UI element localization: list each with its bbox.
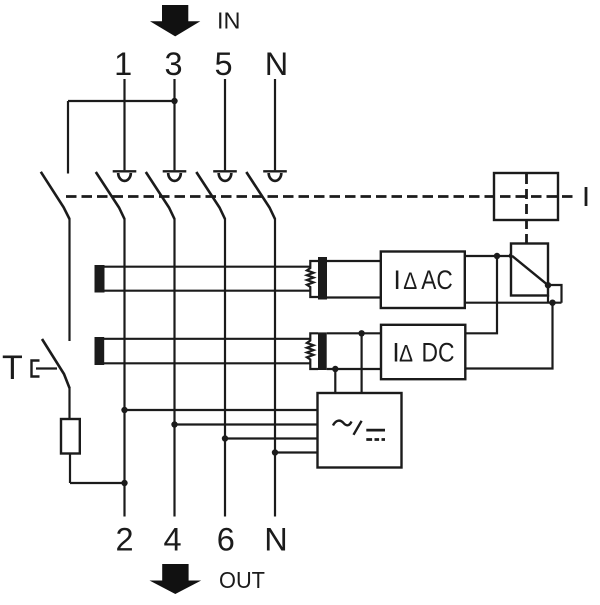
svg-text:T: T (2, 349, 23, 387)
contact terminal pole N (263, 171, 287, 181)
OUT arrow (150, 564, 202, 594)
wire CT2 to IdDC bottom (327, 368, 381, 370)
wire line 5 top (224, 79, 226, 170)
contact terminal pole 5 (213, 171, 237, 181)
svg-text:3: 3 (164, 46, 182, 82)
wire tap to electronics box (right) (361, 333, 363, 393)
CT core 1 (AC toroid) left cap (95, 265, 105, 293)
junction IdDC feedback bottom (549, 300, 555, 306)
IN arrow (150, 5, 200, 36)
contact terminal pole 3 (163, 171, 187, 181)
junction line 2 electronics (121, 407, 127, 413)
wire link pole to line 3 (68, 101, 175, 174)
CT core 2 secondary winding zigzag (307, 333, 318, 369)
wire line 4 to electronics (175, 423, 318, 425)
dashed linkage to relay (525, 174, 528, 243)
CT core 2 body lines (104, 339, 310, 364)
wire line 6 to electronics (225, 437, 318, 439)
electronics box (318, 393, 402, 468)
svg-text:IΔDC: IΔDC (392, 338, 454, 368)
junction on line 3 (171, 98, 177, 104)
test switch blade (42, 339, 70, 388)
switch blade pole 5 (196, 172, 225, 219)
symbol slash (354, 421, 362, 435)
junction IdDC feedback top (494, 253, 500, 259)
wire CT1 to IdAC top (327, 260, 381, 262)
junction line 6 electronics (222, 435, 228, 441)
CT core 1 winding block (318, 257, 327, 300)
svg-text:5: 5 (214, 46, 232, 82)
wire resistor to line 2 (70, 453, 125, 483)
wire line 6 (224, 219, 226, 517)
switch blade pole 3 (146, 172, 175, 219)
junction CT2 top tap (358, 330, 364, 336)
wire CT1 to IdAC bottom (327, 296, 381, 298)
svg-text:OUT: OUT (219, 567, 265, 593)
test button rod (36, 367, 57, 369)
junction line 4 electronics (171, 421, 177, 427)
wire line 3 top (173, 79, 175, 170)
CT core 2 (DC toroid) left cap (95, 337, 105, 365)
junction at relay input (509, 253, 515, 259)
wire IdDC bottom output (465, 303, 552, 369)
trip linkage dashed line (66, 195, 573, 198)
wire line N bottom (274, 219, 276, 517)
switch blade pole 1 (96, 172, 125, 219)
wire IdAC bottom to loop (465, 302, 562, 304)
contact terminal pole 1 (113, 171, 137, 181)
junction on line 2 (121, 480, 127, 486)
svg-text:N: N (264, 522, 287, 558)
wire line 1 top (123, 79, 125, 170)
linkage end tick (585, 187, 588, 206)
switch blade left pole (41, 172, 70, 219)
I delta DC detector box (381, 325, 465, 379)
wire IdAC to relay (465, 255, 511, 257)
relay diagonal (512, 256, 548, 285)
wire line 4 (173, 219, 175, 517)
wire line N to electronics (275, 451, 318, 453)
CT core 2 winding block (318, 332, 327, 370)
svg-text:2: 2 (115, 522, 133, 558)
svg-text:N: N (265, 46, 288, 82)
svg-text:4: 4 (163, 522, 181, 558)
svg-text:6: 6 (217, 522, 235, 558)
wire line 2 (123, 219, 125, 517)
symbol tilde (333, 421, 352, 426)
wire line N top (274, 79, 276, 170)
resistor R test (61, 419, 80, 454)
relay trip coil box (511, 244, 548, 296)
wire IdDC top output (465, 256, 497, 333)
test button bracket (32, 361, 40, 377)
wire CT2 to IdDC top (327, 332, 381, 334)
junction line N electronics (272, 449, 278, 455)
symbol dc bars (366, 429, 385, 432)
CT core 1 body lines (104, 267, 310, 291)
svg-text:IN: IN (217, 7, 241, 33)
wire relay output loop (548, 285, 562, 303)
wire test blade to resistor (68, 387, 70, 420)
svg-text:1: 1 (114, 46, 132, 82)
wire line 2 to electronics (125, 409, 318, 411)
CT core 1 secondary winding zigzag (307, 261, 318, 297)
test actuator box (494, 173, 558, 220)
svg-text:IΔAC: IΔAC (393, 265, 452, 295)
junction CT2 bottom tap (332, 366, 338, 372)
wire tap to electronics box (left) (334, 369, 336, 393)
wire left pole to test contact (68, 219, 70, 342)
switch blade pole N (246, 172, 275, 219)
I delta AC detector box (381, 252, 465, 309)
junction relay output (545, 282, 551, 288)
